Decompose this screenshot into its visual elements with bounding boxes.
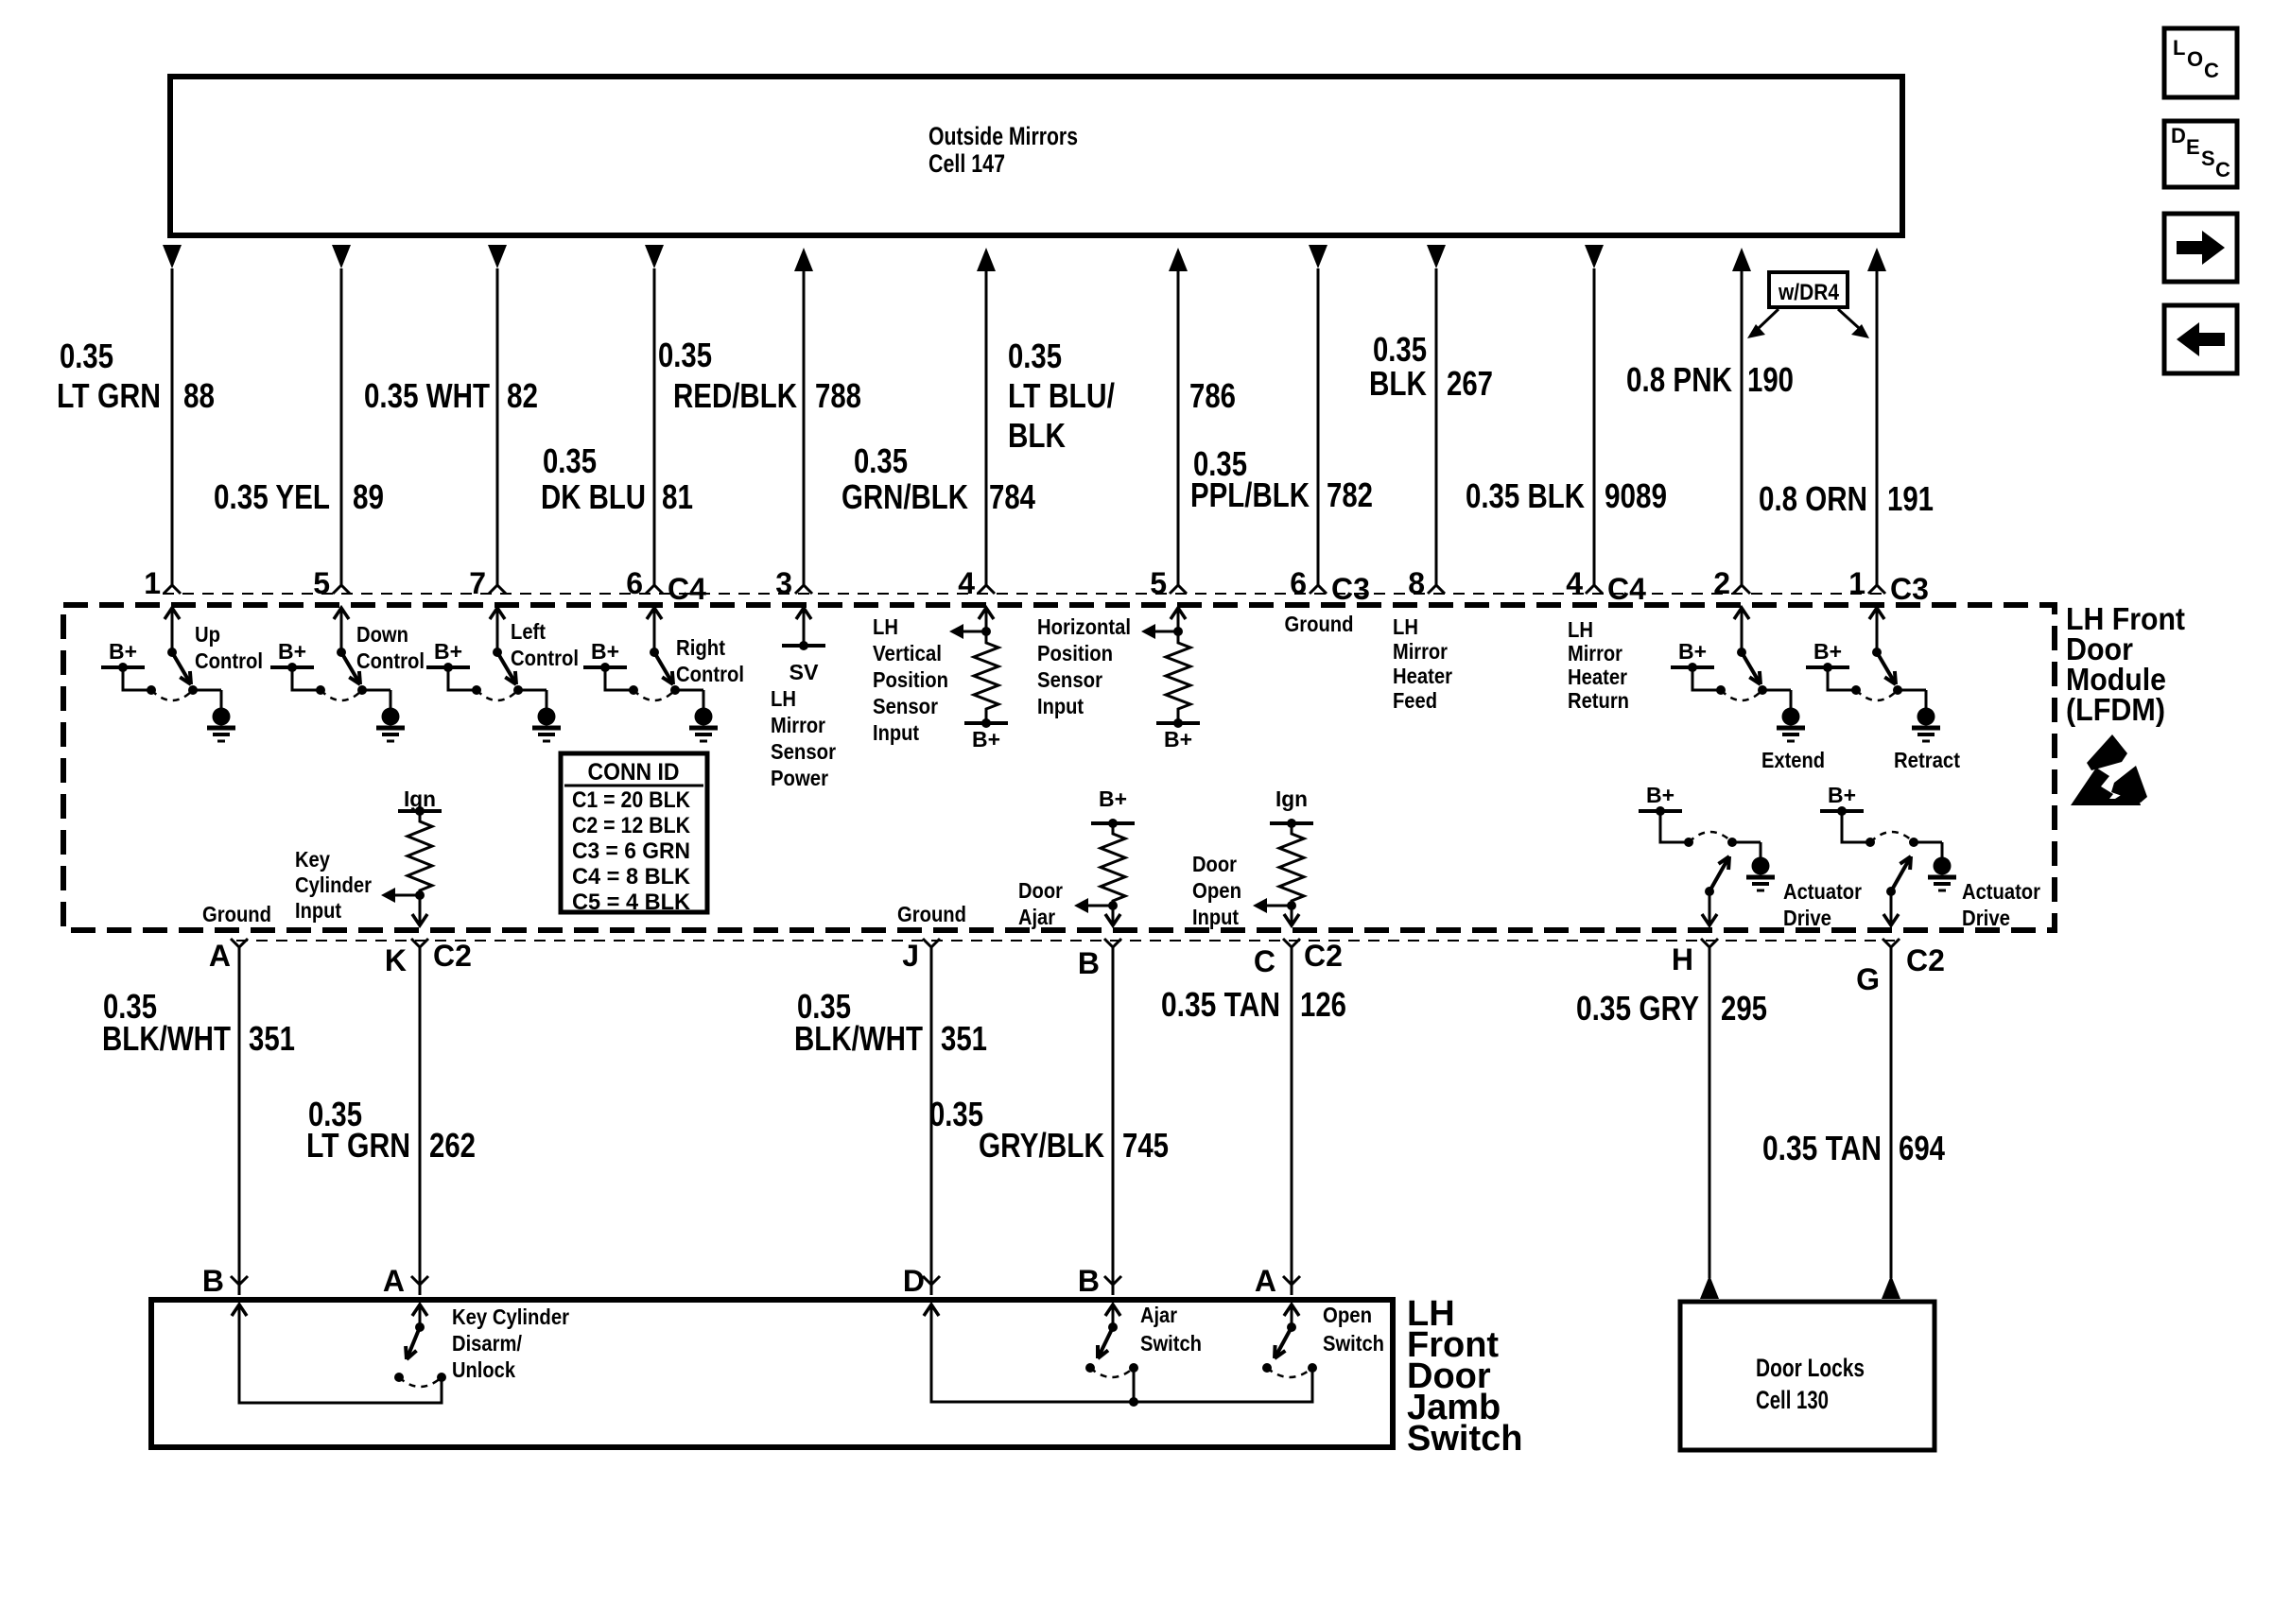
svg-text:B+: B+ [109,639,137,664]
svg-text:Ground: Ground [202,902,271,926]
svg-text:B+: B+ [972,727,1000,752]
svg-text:Door Locks: Door Locks [1756,1354,1865,1382]
svg-text:C2 = 12 BLK: C2 = 12 BLK [572,813,691,838]
svg-text:Open: Open [1192,878,1241,903]
svg-text:Door: Door [1018,878,1063,903]
svg-text:190: 190 [1747,360,1794,399]
svg-text:Mirror: Mirror [1568,641,1622,665]
svg-text:0.35: 0.35 [60,337,113,375]
svg-text:w/DR4: w/DR4 [1778,280,1839,305]
svg-text:B+: B+ [1813,639,1842,664]
svg-text:(LFDM): (LFDM) [2066,692,2165,727]
svg-text:B: B [1078,1264,1100,1298]
svg-text:DK BLU: DK BLU [541,477,646,516]
svg-text:4: 4 [958,566,975,600]
svg-text:C3: C3 [1890,572,1929,606]
svg-text:Heater: Heater [1393,664,1452,688]
svg-text:C5 = 4 BLK: C5 = 4 BLK [572,890,691,915]
svg-text:Feed: Feed [1393,688,1437,713]
svg-text:Input: Input [295,898,341,923]
svg-text:Vertical: Vertical [873,641,942,665]
svg-text:Unlock: Unlock [452,1357,515,1382]
svg-text:Sensor: Sensor [873,694,938,718]
svg-text:D: D [2171,124,2186,147]
svg-text:A: A [1255,1264,1276,1298]
svg-text:LT GRN: LT GRN [306,1126,410,1165]
svg-text:0.35: 0.35 [1008,337,1062,375]
svg-text:Down: Down [356,622,408,647]
svg-text:Switch: Switch [1407,1419,1522,1459]
svg-text:88: 88 [183,376,215,415]
svg-text:8: 8 [1408,566,1425,600]
svg-text:Actuator: Actuator [1783,879,1862,904]
svg-text:Control: Control [195,648,263,673]
svg-text:6: 6 [626,566,643,600]
svg-text:BLK/WHT: BLK/WHT [102,1019,231,1058]
svg-text:GRY/BLK: GRY/BLK [979,1126,1104,1165]
svg-text:PPL/BLK: PPL/BLK [1190,475,1310,514]
svg-text:Input: Input [873,720,919,745]
svg-text:0.35 YEL: 0.35 YEL [214,477,330,516]
svg-text:Sensor: Sensor [771,739,836,764]
svg-text:B+: B+ [1828,783,1856,807]
svg-text:0.35: 0.35 [658,336,712,374]
svg-text:351: 351 [941,1019,987,1058]
svg-text:Return: Return [1568,688,1629,713]
svg-text:7: 7 [469,566,486,600]
svg-text:O: O [2187,47,2203,71]
svg-text:C3 = 6 GRN: C3 = 6 GRN [572,838,690,864]
svg-text:D: D [903,1264,925,1298]
svg-text:89: 89 [353,477,384,516]
svg-text:81: 81 [662,477,693,516]
svg-text:0.8 ORN: 0.8 ORN [1759,479,1867,518]
svg-text:C1 = 20 BLK: C1 = 20 BLK [572,787,691,813]
svg-text:Input: Input [1037,694,1084,718]
svg-text:SV: SV [789,660,820,684]
svg-text:GRN/BLK: GRN/BLK [842,477,968,516]
svg-text:J: J [902,939,919,973]
svg-text:Extend: Extend [1761,748,1825,772]
svg-text:C3: C3 [1331,572,1370,606]
svg-text:0.35 TAN: 0.35 TAN [1762,1129,1882,1167]
svg-text:Switch: Switch [1323,1331,1384,1356]
svg-text:0.35 WHT: 0.35 WHT [364,376,490,415]
svg-text:1: 1 [1848,566,1865,600]
svg-text:191: 191 [1887,479,1934,518]
svg-text:Left: Left [511,619,546,644]
svg-text:0.35: 0.35 [929,1095,983,1133]
svg-text:LH: LH [1568,617,1593,642]
svg-text:BLK: BLK [1008,416,1066,455]
svg-text:C2: C2 [433,939,472,973]
svg-text:Up: Up [195,622,220,647]
svg-text:0.35 TAN: 0.35 TAN [1161,985,1280,1024]
svg-text:351: 351 [249,1019,295,1058]
svg-text:782: 782 [1327,475,1373,514]
svg-text:5: 5 [313,566,330,600]
svg-text:BLK: BLK [1369,364,1427,403]
svg-text:B+: B+ [591,639,619,664]
svg-text:C2: C2 [1304,939,1343,973]
svg-text:LH: LH [771,686,796,711]
svg-text:C: C [2215,158,2230,181]
svg-text:Actuator: Actuator [1962,879,2040,904]
svg-text:1: 1 [144,566,161,600]
svg-text:Sensor: Sensor [1037,667,1102,692]
svg-text:784: 784 [989,477,1035,516]
svg-text:B: B [202,1264,224,1298]
svg-text:K: K [385,943,407,977]
svg-text:B+: B+ [434,639,462,664]
svg-text:788: 788 [815,376,861,415]
svg-text:9089: 9089 [1605,476,1667,515]
svg-text:Open: Open [1323,1303,1372,1327]
svg-text:G: G [1856,962,1880,996]
svg-text:0.35: 0.35 [543,441,597,480]
svg-text:Key Cylinder: Key Cylinder [452,1304,569,1329]
svg-text:C4: C4 [1607,572,1646,606]
svg-text:295: 295 [1721,989,1767,1028]
svg-text:C: C [2204,59,2219,82]
svg-text:S: S [2201,147,2215,170]
svg-text:B+: B+ [1099,786,1127,811]
svg-text:B+: B+ [1646,783,1674,807]
svg-text:Ajar: Ajar [1018,905,1055,929]
svg-text:82: 82 [507,376,538,415]
svg-text:3: 3 [775,566,792,600]
svg-text:Switch: Switch [1140,1331,1202,1356]
svg-text:Disarm/: Disarm/ [452,1331,523,1356]
svg-text:B+: B+ [1678,639,1707,664]
svg-text:Input: Input [1192,905,1239,929]
svg-text:786: 786 [1189,376,1236,415]
svg-text:A: A [209,939,231,973]
svg-text:Cylinder: Cylinder [295,872,372,897]
svg-text:2: 2 [1713,566,1730,600]
svg-text:Cell 147: Cell 147 [928,149,1005,178]
svg-text:C4 = 8 BLK: C4 = 8 BLK [572,864,691,890]
svg-text:L: L [2173,36,2185,60]
svg-text:Horizontal: Horizontal [1037,614,1131,639]
svg-text:B: B [1078,946,1100,980]
svg-text:4: 4 [1566,566,1583,600]
svg-text:Control: Control [356,648,425,673]
svg-text:Ground: Ground [897,902,966,926]
svg-text:LH: LH [1393,614,1418,639]
svg-text:267: 267 [1447,364,1493,403]
svg-text:0.35: 0.35 [854,441,908,480]
svg-text:Mirror: Mirror [1393,639,1448,664]
svg-text:Position: Position [873,667,948,692]
svg-text:Key: Key [295,847,330,872]
svg-text:126: 126 [1300,985,1346,1024]
svg-text:LH: LH [873,614,898,639]
svg-text:E: E [2186,135,2200,159]
svg-text:C2: C2 [1906,943,1945,977]
svg-text:745: 745 [1122,1126,1169,1165]
svg-text:BLK/WHT: BLK/WHT [794,1019,923,1058]
svg-text:CONN ID: CONN ID [588,759,680,786]
svg-text:6: 6 [1290,566,1307,600]
svg-text:5: 5 [1150,566,1167,600]
svg-text:Outside Mirrors: Outside Mirrors [928,122,1078,150]
svg-text:Right: Right [676,635,725,660]
svg-text:Mirror: Mirror [771,713,825,737]
svg-text:Heater: Heater [1568,665,1627,689]
svg-text:0.8 PNK: 0.8 PNK [1626,360,1732,399]
svg-text:H: H [1672,942,1693,976]
svg-text:A: A [383,1264,405,1298]
svg-text:Control: Control [511,646,579,670]
svg-text:LT GRN: LT GRN [57,376,161,415]
svg-text:Ajar: Ajar [1140,1303,1177,1327]
svg-text:B+: B+ [278,639,306,664]
svg-text:694: 694 [1899,1129,1945,1167]
svg-text:C: C [1254,944,1275,978]
svg-text:Door: Door [1192,852,1237,876]
svg-text:Retract: Retract [1894,748,1960,772]
svg-text:Drive: Drive [1783,906,1831,930]
svg-text:0.35 BLK: 0.35 BLK [1466,476,1585,515]
svg-text:Ground: Ground [1285,612,1354,636]
svg-text:Ign: Ign [1275,786,1308,811]
svg-text:C4: C4 [668,572,706,606]
svg-text:262: 262 [429,1126,476,1165]
svg-text:RED/BLK: RED/BLK [673,376,797,415]
svg-text:Control: Control [676,662,744,686]
svg-text:Position: Position [1037,641,1113,665]
svg-text:Power: Power [771,766,828,790]
svg-text:B+: B+ [1164,727,1192,752]
svg-text:Cell 130: Cell 130 [1756,1386,1829,1414]
svg-text:0.35 GRY: 0.35 GRY [1576,989,1699,1028]
svg-text:0.35: 0.35 [1373,330,1427,369]
svg-text:LT BLU/: LT BLU/ [1008,376,1115,415]
svg-text:Drive: Drive [1962,906,2010,930]
